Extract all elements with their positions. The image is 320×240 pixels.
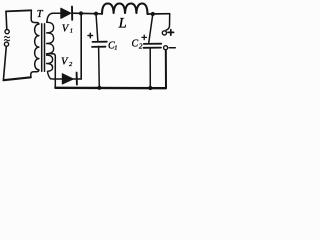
inductor L <box>102 4 148 15</box>
output terminal + (top circle) <box>162 31 166 35</box>
V1 label <box>62 23 73 34</box>
diode V2 <box>62 73 81 85</box>
wire: input loop left side lower <box>4 46 7 79</box>
capacitor C1 plates <box>92 42 107 47</box>
wire: input loop left side upper <box>5 11 8 29</box>
svg-text:V: V <box>62 23 70 34</box>
C2 polarity plus <box>142 35 146 39</box>
svg-text:V: V <box>61 57 69 68</box>
node: junction dot V2 riser / top rail <box>79 11 83 15</box>
svg-text:T: T <box>37 9 44 20</box>
AC source terminal (bottom circle) <box>4 42 8 46</box>
wire: top rail from V1 to output corner <box>72 12 170 15</box>
wire: V2 cathode riser <box>80 13 82 79</box>
output terminal - (bottom circle) <box>164 46 168 50</box>
diode V1 <box>61 7 72 20</box>
V2 label <box>61 57 73 68</box>
C1 label <box>108 40 118 51</box>
capacitor C2 plates <box>144 44 162 48</box>
wire: output top from rail corner down to terminal <box>166 14 170 31</box>
svg-text:1: 1 <box>114 45 117 52</box>
transformer secondary winding lower half <box>47 55 53 79</box>
wire: input loop top edge <box>6 10 31 11</box>
wire: center tap to bottom rail riser <box>47 54 56 88</box>
svg-text:2: 2 <box>139 42 143 50</box>
node: junction dot C1 / top rail <box>94 12 98 16</box>
wire: output bottom terminal to bottom rail <box>165 50 167 88</box>
transformer T label <box>37 9 44 20</box>
L label <box>118 15 127 31</box>
capacitor C1 bottom lead <box>98 46 101 87</box>
svg-text:C: C <box>132 39 139 50</box>
wire: secondary top to diode V1 <box>47 13 61 21</box>
capacitor C2 bottom lead <box>149 48 151 88</box>
node: junction dot C1 / bottom rail <box>97 86 101 90</box>
transformer core line 2 <box>44 24 46 72</box>
wire: secondary bottom to diode V2 anode <box>50 78 62 80</box>
svg-text:1: 1 <box>70 28 73 35</box>
C2 label <box>132 39 143 51</box>
transformer secondary winding upper half <box>47 21 54 54</box>
capacitor C2 top lead <box>149 14 153 43</box>
svg-text:L: L <box>118 15 127 31</box>
capacitor C1 top lead <box>96 14 98 41</box>
output plus label <box>168 30 174 36</box>
svg-text:2: 2 <box>69 61 73 68</box>
wire: bottom rail <box>55 87 166 90</box>
node: junction dot L output / C2 <box>151 12 155 16</box>
transformer core line 1 <box>41 24 43 72</box>
node: junction dot C2 / bottom rail <box>148 86 152 90</box>
AC source terminal (top circle) <box>5 30 9 34</box>
transformer primary winding <box>35 23 39 72</box>
C1 polarity plus <box>88 33 93 38</box>
wire: input loop right side top, to primary top <box>31 10 37 22</box>
wire: input loop bottom edge <box>4 77 31 80</box>
output minus label <box>169 47 175 49</box>
AC tilde symbol <box>4 36 9 40</box>
wire: input loop right side bottom, to primary bottom <box>31 72 37 78</box>
